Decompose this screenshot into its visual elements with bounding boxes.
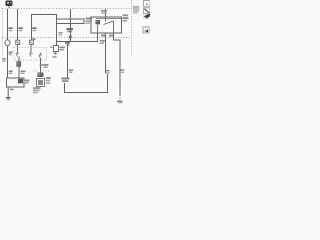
flag label on sensor wire bbox=[9, 52, 13, 56]
dashed connector line C1 bbox=[2, 37, 131, 39]
wire battery feed B bbox=[17, 9, 19, 40]
fuse F1 label bbox=[86, 18, 93, 25]
toolbar icon grabber hand bbox=[143, 14, 150, 19]
wire splice down bbox=[67, 44, 69, 78]
relay K1 coil ground stub bbox=[97, 25, 99, 33]
wire sensor down bbox=[7, 46, 9, 78]
connector pin label C1-A bbox=[101, 35, 105, 37]
relay K1 box bbox=[91, 17, 122, 33]
inline connector marks bbox=[62, 78, 70, 83]
connector X1 right labels bbox=[46, 77, 51, 84]
splice tick bbox=[106, 70, 110, 74]
indicator lamp L1 bbox=[16, 40, 20, 44]
ground G2 bbox=[117, 101, 123, 104]
connector tick on sensor wire bbox=[9, 71, 13, 75]
switch S2 bbox=[30, 51, 33, 57]
dotted off-page wire bbox=[119, 95, 121, 101]
ground G1 bbox=[5, 97, 11, 100]
relay K1 right label bbox=[123, 15, 129, 22]
T-connector symbol at splice bbox=[65, 42, 70, 46]
pin label c bbox=[32, 38, 35, 40]
inline connector dash left bbox=[34, 70, 39, 72]
main splice bus wire bbox=[57, 41, 98, 43]
wire label lead bbox=[59, 32, 63, 36]
wire color label BLK bbox=[100, 40, 105, 44]
gauge sensor circle bbox=[5, 40, 10, 46]
wire label c2 bbox=[32, 27, 36, 31]
connector tick on fan feed wire bbox=[121, 69, 125, 73]
top-left toolbar icon bbox=[6, 1, 13, 9]
wire lamp L2 down bbox=[30, 44, 32, 51]
connector X1 bottom text bbox=[33, 87, 41, 93]
wire label b bbox=[18, 27, 22, 31]
dashed page border left bbox=[2, 9, 4, 58]
wire motor to ground bbox=[7, 87, 9, 97]
switch S4 bbox=[54, 46, 59, 52]
switch S4 lower stub bbox=[55, 52, 57, 56]
connector symbol on feed bbox=[67, 28, 74, 32]
wire resistor to motor box bbox=[18, 57, 20, 79]
resistor pack R1 bbox=[16, 61, 21, 66]
toolbar icon new-window 1 bbox=[144, 1, 151, 7]
motor M1 symbol bbox=[18, 79, 23, 84]
switch S1 bbox=[16, 51, 19, 57]
connector block X1 bbox=[37, 73, 45, 87]
motor M1 label bbox=[25, 80, 29, 84]
relay K1 inner top bar bbox=[96, 18, 122, 20]
relay K1 coil bbox=[96, 20, 101, 24]
relay K1 pin 87 stub bbox=[113, 21, 115, 33]
connector pin label C1-B bbox=[109, 35, 113, 37]
wire branch bus bbox=[32, 15, 57, 41]
blower motor M1 box bbox=[7, 78, 25, 87]
toolbar icon back-arrow bbox=[143, 27, 149, 33]
terminal number label bbox=[53, 56, 57, 58]
switch S3 bbox=[39, 53, 42, 59]
wire fuse to switch bbox=[56, 24, 58, 46]
junction at connector line bbox=[69, 36, 72, 39]
label left of sensor wire bbox=[2, 58, 6, 62]
page-edge note text bbox=[133, 6, 140, 13]
splice label S1 bbox=[101, 10, 107, 14]
connector tick on resistor wire bbox=[21, 71, 26, 75]
wire feed to fuse bbox=[70, 9, 72, 24]
wire battery feed A bbox=[7, 9, 9, 40]
wire relay pin 85 down bbox=[105, 33, 107, 74]
indicator lamp L2 bbox=[29, 40, 33, 44]
inline tick on S3 wire bbox=[40, 64, 44, 66]
toolbar icon new-window 2 bbox=[144, 8, 151, 14]
wire label right of S3 wire bbox=[44, 64, 49, 68]
wire relay pin 87 down bbox=[113, 33, 115, 40]
dashed page border right bbox=[131, 0, 133, 55]
wire color label bbox=[69, 69, 73, 73]
switch assembly dashed box bbox=[14, 48, 47, 61]
wire jog to fan feed bbox=[114, 40, 121, 95]
wire lamp L1 down bbox=[17, 44, 19, 51]
relay K1 pin 30 stub bbox=[105, 17, 107, 22]
relay K1 switch arm bbox=[104, 21, 114, 25]
ground wire label bbox=[10, 89, 14, 91]
wire feed to relay K1 bbox=[105, 9, 107, 17]
wire connector to bus bbox=[70, 24, 72, 42]
inline connector dash right bbox=[43, 70, 49, 72]
switch S4 label bbox=[60, 47, 66, 51]
wire switch S3 down bbox=[40, 59, 42, 73]
wire relay coil to splice bbox=[97, 33, 99, 42]
dashed page border top bbox=[2, 8, 131, 10]
wire label a bbox=[8, 27, 12, 31]
switch S4 lower pin mark bbox=[54, 52, 56, 54]
switch S4 pin label left bbox=[50, 47, 53, 49]
fuse F1 bbox=[57, 19, 85, 24]
wire to ground run bbox=[65, 74, 108, 93]
